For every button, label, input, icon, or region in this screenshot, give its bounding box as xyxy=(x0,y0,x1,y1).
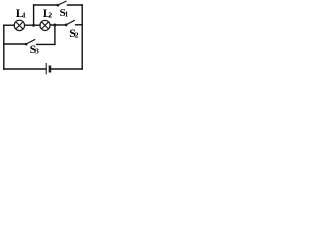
label S2 xyxy=(69,26,79,40)
wire bottom right (battery to right corner) xyxy=(51,68,83,70)
node A junction dot xyxy=(32,24,35,27)
wire lamp row: S2 to right edge xyxy=(76,24,83,26)
svg-text:3: 3 xyxy=(35,47,39,56)
switch S2 xyxy=(65,20,75,26)
wire S3 row: left edge to S3 pivot xyxy=(4,43,26,45)
wire node A riser vertical xyxy=(33,5,35,25)
wire bottom left (battery to left corner) xyxy=(4,68,46,70)
wire left vertical xyxy=(3,25,5,69)
svg-text:1: 1 xyxy=(22,11,26,20)
switch S3 xyxy=(25,39,36,45)
lamp L2 xyxy=(40,20,50,30)
lamp L1 xyxy=(14,20,24,30)
svg-text:2: 2 xyxy=(48,11,52,20)
wire lamp row: left edge to L1 xyxy=(4,24,14,26)
wire S3 row: S3 to node B drop xyxy=(37,43,55,45)
label S3 xyxy=(30,42,39,56)
label S1 xyxy=(60,7,69,19)
wire top horizontal right of S1 xyxy=(68,4,83,6)
battery cell xyxy=(46,63,51,74)
switch S1 xyxy=(57,1,67,7)
wire node B drop vertical xyxy=(54,25,56,44)
wire right vertical xyxy=(81,5,83,69)
label L2 xyxy=(43,6,53,20)
label L1 xyxy=(16,6,27,20)
wire lamp row: L2 to S2 pivot xyxy=(50,24,66,26)
svg-text:2: 2 xyxy=(75,31,79,40)
wire lamp row: L1 to L2 through node A xyxy=(25,24,40,26)
wire top horizontal left of S1 xyxy=(34,4,58,6)
node B junction dot xyxy=(53,24,56,27)
svg-text:1: 1 xyxy=(65,11,69,19)
